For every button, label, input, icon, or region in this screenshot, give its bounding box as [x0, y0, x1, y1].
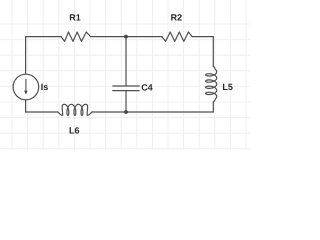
- wire bottom node to right corner: [126, 111, 213, 113]
- wire right vertical lower: [212, 102, 214, 112]
- wire R1 to node: [91, 36, 126, 38]
- wire node to R2: [126, 36, 162, 38]
- node dot bottom: [124, 110, 128, 114]
- capacitor C4 bottom wire: [125, 91, 127, 112]
- current source arrow: [25, 79, 27, 90]
- svg-text:C4: C4: [141, 82, 153, 92]
- inductor L5: [206, 66, 217, 102]
- capacitor C4 top wire: [125, 37, 127, 86]
- wire R2 to top-right corner: [192, 36, 213, 38]
- node dot top: [124, 35, 128, 39]
- wire bottom-left to L6: [26, 111, 58, 113]
- wire right vertical upper: [212, 37, 214, 67]
- wire left vertical upper: [25, 37, 27, 75]
- wire left vertical lower: [25, 100, 27, 112]
- resistor R1: [61, 32, 91, 41]
- svg-text:L5: L5: [222, 82, 233, 92]
- svg-text:Is: Is: [41, 82, 49, 92]
- svg-text:L6: L6: [69, 126, 80, 136]
- current source Is circle: [13, 74, 39, 100]
- wire top-left: left corner to R1: [26, 36, 61, 38]
- wire L6 to bottom node: [92, 111, 126, 113]
- svg-text:R1: R1: [69, 13, 81, 23]
- svg-text:R2: R2: [171, 13, 183, 23]
- resistor R2: [162, 32, 192, 41]
- capacitor C4 plates: [113, 85, 139, 87]
- inductor L6: [58, 104, 92, 115]
